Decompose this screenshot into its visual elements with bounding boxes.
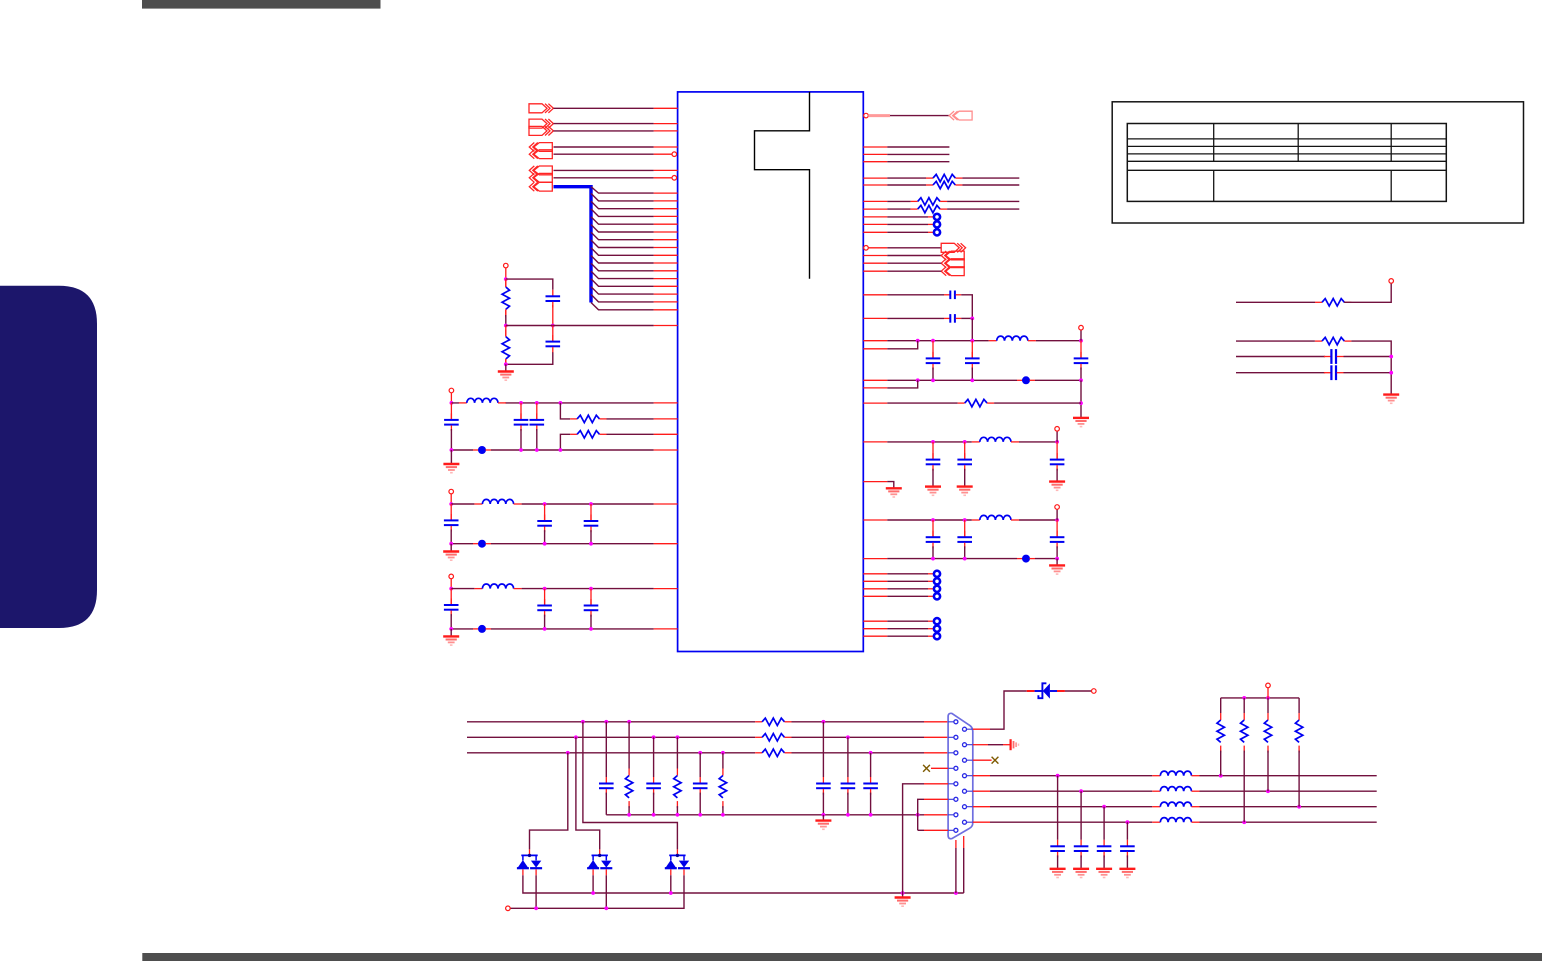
wire bus W2 xyxy=(467,736,924,738)
wire C12 to corner xyxy=(961,295,972,319)
junction mid-left xyxy=(504,324,508,328)
ferrite bead FB2 xyxy=(473,540,491,548)
wire from R5 xyxy=(962,177,1019,179)
junction xyxy=(1389,355,1393,359)
ground G10 xyxy=(1049,559,1065,575)
capacitor C25 xyxy=(599,722,614,815)
no-connect X2 xyxy=(992,757,999,764)
wire net A5 xyxy=(554,153,654,155)
junction bottom xyxy=(504,362,508,366)
wire to R8 xyxy=(887,208,910,210)
wire J8 shell stubs xyxy=(956,836,964,848)
connector J1 (out) xyxy=(529,104,553,113)
inductor L9 xyxy=(1152,802,1199,807)
wire net V1 xyxy=(973,775,1377,777)
wire pin step up xyxy=(887,341,917,349)
wire D1 to P10 xyxy=(1065,690,1092,692)
test pad TP10 xyxy=(887,633,940,639)
junction dots L2 top rail xyxy=(543,502,593,506)
title block table xyxy=(1127,124,1446,202)
IC U1 inverted pin bubbles right xyxy=(864,113,869,118)
capacitor C27 xyxy=(693,753,708,815)
wire rail RC top xyxy=(887,519,1057,521)
connector J6 (out) xyxy=(941,243,965,252)
wire from R8 xyxy=(947,208,1019,210)
capacitor C9 xyxy=(444,589,459,629)
ferrite bead FB1 xyxy=(473,446,491,454)
connector J8 holes left column xyxy=(954,720,958,833)
wire R10 to P8 xyxy=(1344,283,1391,302)
power node P6 xyxy=(1055,427,1060,442)
wire W3 pin lead xyxy=(924,752,948,754)
wire L2 bottom rail xyxy=(451,543,653,545)
wire to R5 xyxy=(887,177,926,179)
wire net V2 xyxy=(973,790,1377,792)
wire from R6 xyxy=(962,184,1019,186)
ground G2 xyxy=(443,450,459,473)
diode D1 xyxy=(1027,683,1065,698)
inductor L6 xyxy=(972,515,1019,520)
wire R3 to IC xyxy=(607,418,654,420)
capacitor C20 xyxy=(926,520,941,559)
capacitor C16 xyxy=(1074,341,1089,381)
wire L2 top rail xyxy=(451,503,653,505)
wire P4 drop xyxy=(450,579,452,589)
wire L3 top rail xyxy=(451,588,653,590)
junction L1 top-left xyxy=(450,401,454,405)
junction dots L2 bottom rail xyxy=(449,542,593,546)
capacitor C23 xyxy=(1324,349,1344,364)
wire J8 rpin2 xyxy=(973,744,1011,746)
wire net A1 xyxy=(554,107,654,109)
ground G13 xyxy=(895,893,911,906)
wire ground drop RA xyxy=(1080,380,1082,418)
capacitor C15 xyxy=(965,341,980,381)
left chapter tab xyxy=(0,286,97,628)
capacitor C13 xyxy=(944,314,961,323)
capacitor C6 xyxy=(444,504,459,544)
junction dots bottom rail xyxy=(627,813,919,817)
connector J8 DB15 body xyxy=(948,713,973,838)
junction dots L3 top rail xyxy=(543,587,593,591)
capacitor C17 xyxy=(926,442,941,487)
wire net V3 xyxy=(973,806,1377,808)
IC U1 internal outline xyxy=(755,92,810,279)
IC U1 right pin stubs xyxy=(863,147,887,636)
junction L3 top-left xyxy=(449,587,453,591)
footer bar xyxy=(142,953,1542,961)
test pad TP8 xyxy=(887,618,940,624)
test pad TP3 xyxy=(887,229,940,235)
test pad TP9 xyxy=(887,626,940,632)
wire rail RC bottom xyxy=(887,558,1057,560)
ground G3 xyxy=(443,544,459,561)
test pad TP4 xyxy=(887,571,940,577)
ground G17 xyxy=(1096,869,1112,878)
inductor L3 xyxy=(474,584,521,589)
power node P9 xyxy=(506,906,511,911)
wire pin step up2 xyxy=(887,380,917,388)
junction dots rail RA xyxy=(916,339,1083,343)
resistor R11 xyxy=(1315,337,1351,344)
wire to R10 xyxy=(1236,301,1315,303)
power node P10 xyxy=(1092,689,1097,694)
wire J8 pin4 stub xyxy=(931,767,948,769)
power node P11 xyxy=(1266,683,1271,698)
diode pair D4 xyxy=(665,849,690,875)
resistor R16 xyxy=(674,737,681,815)
IC U1 inverted pin bubbles left xyxy=(672,152,677,157)
IC U1 body xyxy=(678,92,864,652)
connector J8 holes right column xyxy=(963,727,967,824)
power node P4 xyxy=(449,574,454,579)
junction xyxy=(504,277,508,281)
capacitor C30 xyxy=(863,753,878,815)
wire P3 drop xyxy=(450,494,452,504)
title block outer frame xyxy=(1112,102,1523,223)
wire J8 pin6 xyxy=(918,799,948,830)
wire net A4 xyxy=(554,146,654,148)
wire net R-out2 xyxy=(887,247,941,249)
capacitor C22 xyxy=(1050,520,1065,559)
wire R1 to mid xyxy=(505,315,507,326)
wire to R6 xyxy=(887,184,926,186)
capacitor C5 xyxy=(530,403,545,450)
test pad TP5 xyxy=(887,578,940,584)
wire to R7 xyxy=(887,200,910,202)
diode pair D3 xyxy=(587,849,612,875)
wire drop W2 to D3 xyxy=(576,737,600,849)
connector J4 (in triple) xyxy=(529,166,552,191)
junction dots L1 top rail xyxy=(519,401,562,405)
capacitor C12 xyxy=(944,291,961,300)
test pad TP7 xyxy=(887,593,940,599)
wire net R1a xyxy=(887,146,949,148)
capacitor C24 xyxy=(1324,365,1344,380)
ground G16 xyxy=(1073,869,1089,878)
header bar xyxy=(142,0,381,9)
wire bottom rail xyxy=(606,814,924,816)
test pad TP6 xyxy=(887,586,940,592)
resistor R17 xyxy=(719,753,726,815)
capacitor C18 xyxy=(957,442,972,487)
resistor R8 xyxy=(911,205,947,212)
ferrite bead FB3 xyxy=(473,625,491,633)
wire C13 to junction xyxy=(961,317,972,319)
resistor R9 xyxy=(958,399,994,406)
wire pull-up rail xyxy=(1221,697,1299,699)
resistor R1 xyxy=(502,279,509,317)
power node P1 xyxy=(504,263,509,268)
resistor R7 xyxy=(911,198,947,205)
wire L1 bottom rail xyxy=(451,449,653,451)
capacitor C21 xyxy=(957,520,972,559)
wire net V4 xyxy=(973,821,1377,823)
wire to R9 xyxy=(887,402,957,404)
ground G12 xyxy=(815,815,831,830)
junction dots rail RC bottom xyxy=(931,557,1059,561)
capacitor C2 xyxy=(546,326,561,353)
wire P1 drop xyxy=(505,268,507,279)
ferrite bead FB4 xyxy=(1017,376,1035,384)
inductor L10 xyxy=(1152,818,1199,823)
wire W2 pin lead xyxy=(924,736,948,738)
connector J5 (in) xyxy=(949,111,972,120)
ground G11 xyxy=(1383,395,1399,404)
junction V1 xyxy=(970,317,974,321)
capacitor C28 xyxy=(816,722,831,815)
wire J8 rpin1 xyxy=(973,691,1027,729)
resistor R5 xyxy=(926,174,962,181)
inductor L5 xyxy=(972,437,1019,442)
wire C1 lower lead xyxy=(552,305,554,326)
ground G18 xyxy=(1119,869,1135,878)
wire L1 top rail xyxy=(451,402,653,404)
junction dots L1 bottom rail xyxy=(450,448,563,452)
wire net R-out1 (pink) xyxy=(868,114,890,117)
capacitor C19 xyxy=(1050,442,1065,482)
wire L3 bottom rail xyxy=(451,628,653,630)
wire bus W1 xyxy=(467,721,924,723)
capacitor C33 xyxy=(1097,807,1112,869)
capacitor C31 xyxy=(1050,776,1065,869)
resistor R19 xyxy=(1241,698,1248,822)
capacitor C14 xyxy=(926,341,941,381)
junction dots rail RC xyxy=(931,518,1059,522)
capacitor C32 xyxy=(1074,791,1089,869)
wire to R11 xyxy=(1236,340,1315,342)
capacitor C11 xyxy=(584,589,599,629)
resistor R12 xyxy=(755,718,791,725)
junction dots W3 xyxy=(566,751,873,755)
resistor R13 xyxy=(755,734,791,741)
junction xyxy=(1079,401,1083,405)
wire net R-out1 xyxy=(890,115,949,117)
wire pin gnd step xyxy=(887,482,894,489)
wire rail diode-left xyxy=(523,875,964,893)
wire J8 pin5 xyxy=(903,784,949,893)
wire W1 pin lead xyxy=(924,721,948,723)
resistor R3 xyxy=(570,415,606,422)
resistor R2 xyxy=(502,326,509,367)
wire P2 drop xyxy=(450,393,452,403)
wire R9 to junction xyxy=(994,402,1081,404)
inductor L8 xyxy=(1152,787,1199,792)
junction mid-right xyxy=(551,324,555,328)
wire net R-in2 xyxy=(887,262,941,264)
wire J8 rpin3 stub xyxy=(973,759,992,761)
capacitor C4 xyxy=(514,403,529,450)
resistor R18 xyxy=(1217,698,1224,776)
no-connect X1 xyxy=(923,765,930,772)
wire bus W3 xyxy=(467,752,924,754)
wire to C13 xyxy=(887,317,944,319)
capacitor C29 xyxy=(841,737,856,815)
connector J3 (in pair) xyxy=(529,143,552,159)
junction dots pull-up rail xyxy=(1242,696,1270,700)
diode pair D2 xyxy=(517,849,542,875)
test pad TP2 xyxy=(887,221,940,227)
junction dots rail RA bottom xyxy=(916,378,1083,382)
wire to C24 xyxy=(1236,372,1325,374)
junction dots rail diode-right xyxy=(534,906,608,910)
power node P8 xyxy=(1389,279,1394,284)
capacitor C3 xyxy=(444,403,459,450)
wire net R-in3 xyxy=(887,270,941,272)
ground G8 xyxy=(1049,482,1065,491)
junction dots V nets xyxy=(1056,774,1301,824)
wire net A6 xyxy=(554,169,654,171)
inductor L1 xyxy=(459,398,506,403)
wire to C12 xyxy=(887,294,944,296)
wire C24 to junction xyxy=(1344,372,1392,374)
wire V1 drop xyxy=(971,318,973,340)
ferrite bead FB5 xyxy=(1017,555,1035,563)
bus fan-out wires xyxy=(591,187,654,310)
wire J8 pin8 xyxy=(918,829,948,831)
inductor L4 xyxy=(989,336,1036,341)
junction dots L3 bottom rail xyxy=(449,627,593,631)
wire R11 to corner xyxy=(1351,341,1391,395)
junction dots rail RB xyxy=(931,440,1059,444)
junction dots rail diode-left xyxy=(591,891,958,895)
wire drop W3 to D2 xyxy=(530,753,568,850)
bus B1 xyxy=(554,187,592,303)
capacitor C34 xyxy=(1120,822,1135,869)
resistor R6 xyxy=(926,181,962,188)
connector J8 pin ticks right xyxy=(967,729,973,822)
wire C23 to junction xyxy=(1344,356,1392,358)
junction dots W2 xyxy=(574,735,850,739)
wire to C23 xyxy=(1236,356,1325,358)
inductor L7 xyxy=(1152,771,1199,776)
junction dots W1 xyxy=(581,720,825,724)
wire divider mid to IC xyxy=(506,325,654,327)
resistor R10 xyxy=(1315,299,1351,306)
wire rail RA bottom xyxy=(887,379,1081,381)
power node P5 xyxy=(1079,325,1084,340)
test pad TP1 xyxy=(887,214,940,220)
capacitor C8 xyxy=(584,504,599,544)
power node P3 xyxy=(449,489,454,494)
capacitor C26 xyxy=(646,737,661,815)
wire from R7 xyxy=(947,200,1019,202)
resistor R14 xyxy=(755,749,791,756)
wire L1 tap1 xyxy=(560,403,570,419)
wire net R-in1 xyxy=(887,255,941,257)
inductor L2 xyxy=(474,499,521,504)
resistor R4 xyxy=(570,431,606,438)
ground G6 xyxy=(925,487,941,496)
wire rail diode-right xyxy=(510,875,684,908)
wire divider top xyxy=(506,279,553,290)
junction L2 top-left xyxy=(449,502,453,506)
ground G4 xyxy=(443,629,459,645)
wire bottom rail pin lead xyxy=(924,814,948,816)
wire net A7 xyxy=(554,177,654,179)
capacitor C1 xyxy=(546,290,561,308)
ground G1 xyxy=(498,364,514,380)
connector J7 (in triple) xyxy=(941,251,964,276)
connector J8 pin ticks left xyxy=(948,722,954,831)
wire net A3 xyxy=(554,130,654,132)
connector J2 (out pair) xyxy=(529,119,553,136)
wire divider bottom xyxy=(506,352,553,364)
ground G14 (rotated) xyxy=(1011,739,1019,750)
resistor R21 xyxy=(1295,698,1302,807)
IC U1 left pin stubs xyxy=(654,108,678,629)
wire rail RB top xyxy=(887,441,1057,443)
capacitor C7 xyxy=(537,504,552,544)
power node P2 xyxy=(449,388,454,393)
wire drop W1 to D4 xyxy=(583,722,678,850)
ground G5 xyxy=(1073,418,1089,427)
junction xyxy=(1389,371,1393,375)
wire rail RA top xyxy=(887,340,1081,342)
ground G7 xyxy=(957,487,973,496)
wire net A2 xyxy=(554,123,654,125)
wire net R1c xyxy=(887,161,949,163)
wire R4 to IC xyxy=(607,433,654,435)
power node P7 xyxy=(1055,505,1060,520)
wire net R1b xyxy=(887,153,949,155)
ground G9 xyxy=(886,488,902,497)
ground G15 xyxy=(1050,869,1066,878)
wire L1 tap2 xyxy=(560,434,570,450)
resistor R15 xyxy=(625,722,632,815)
capacitor C10 xyxy=(537,589,552,629)
resistor R20 xyxy=(1264,698,1271,791)
